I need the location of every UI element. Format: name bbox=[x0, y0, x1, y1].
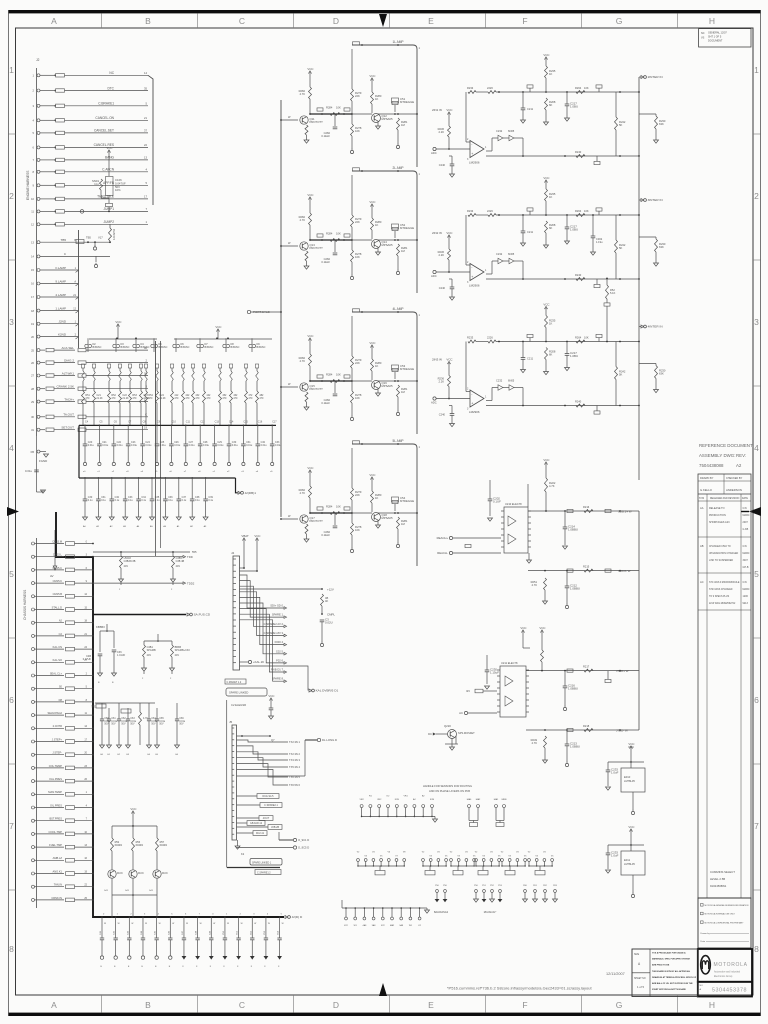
junction bbox=[405, 816, 407, 818]
resistor R9 bbox=[145, 391, 148, 403]
svg-text:ACA SEL: ACA SEL bbox=[61, 346, 74, 350]
svg-text:0.01u: 0.01u bbox=[261, 444, 268, 447]
junction bbox=[321, 380, 323, 382]
junction bbox=[430, 865, 431, 866]
wire top bus bbox=[496, 214, 639, 216]
svg-text:R233: R233 bbox=[467, 86, 474, 90]
ground bbox=[83, 517, 88, 520]
node REACH+ bbox=[449, 536, 452, 539]
svg-text:DRAWN IN AT TERMS A PROCESS. S: DRAWN IN AT TERMS A PROCESS. SPECS OF bbox=[652, 976, 697, 979]
connector J2 right bracket bbox=[148, 75, 153, 205]
power VBAT bbox=[243, 540, 245, 544]
ground terminal bbox=[563, 707, 566, 710]
svg-text:W: W bbox=[159, 923, 161, 925]
connector J2 left spine bbox=[36, 68, 38, 436]
connector J3 pin row S0 bbox=[32, 687, 35, 690]
junction bbox=[92, 820, 94, 822]
wire rail group1 bbox=[89, 338, 157, 340]
junction bbox=[638, 278, 640, 280]
junction bbox=[101, 916, 103, 918]
ground terminal bbox=[169, 956, 172, 959]
connector J3 pin row C2 bbox=[32, 634, 35, 637]
junction bbox=[630, 844, 632, 846]
component box bbox=[596, 334, 602, 337]
svg-text:RELEASED AND REVISION: RELEASED AND REVISION bbox=[710, 497, 740, 500]
svg-text:C10: C10 bbox=[171, 421, 176, 424]
resistor R72 bbox=[615, 367, 618, 380]
resistor R17 bbox=[245, 391, 248, 403]
svg-text:F.LAMP: F.LAMP bbox=[55, 266, 66, 270]
node F000 4 bbox=[284, 643, 287, 646]
resistor R92 bbox=[156, 826, 158, 838]
transistor Q16 bbox=[372, 381, 381, 390]
wire bbox=[240, 666, 309, 691]
connector J3 pin row CM15.M bbox=[32, 542, 35, 545]
svg-text:0.1u: 0.1u bbox=[168, 499, 173, 502]
svg-text:R215: R215 bbox=[583, 564, 590, 568]
svg-text:R284: R284 bbox=[326, 373, 333, 377]
svg-text:ASSEMBLY DWG:: ASSEMBLY DWG: bbox=[699, 453, 735, 458]
filter box bbox=[46, 361, 54, 364]
svg-text:MC2AF/AL*: MC2AF/AL* bbox=[484, 911, 497, 914]
svg-text:1K: 1K bbox=[375, 496, 378, 500]
svg-text:C63: C63 bbox=[130, 718, 135, 720]
svg-text:MRB: MRB bbox=[502, 799, 507, 801]
junction bbox=[564, 510, 566, 512]
capacitor C8 bbox=[450, 163, 455, 165]
svg-text:CM15.C: CM15.C bbox=[52, 566, 62, 570]
svg-text:G.KELLO: G.KELLO bbox=[700, 488, 713, 492]
connector J2 pin row CRANK 2.5K bbox=[37, 387, 40, 390]
svg-text:ENGINE HARNESS: ENGINE HARNESS bbox=[26, 170, 30, 200]
svg-text:U210 ELEC78: U210 ELEC78 bbox=[505, 502, 522, 506]
power VCC bbox=[448, 237, 450, 241]
svg-text:SPGMB+C33: SPGMB+C33 bbox=[175, 649, 191, 652]
svg-text:SDI+ SD 0: SDI+ SD 0 bbox=[270, 604, 283, 608]
junction bbox=[54, 198, 56, 200]
svg-text:R264: R264 bbox=[575, 86, 582, 90]
ground terminal bbox=[141, 956, 144, 959]
junction bbox=[115, 916, 117, 918]
svg-text:APP.FB: APP.FB bbox=[103, 181, 114, 185]
svg-text:R284: R284 bbox=[326, 232, 333, 236]
ground bbox=[119, 579, 124, 582]
svg-text:C62: C62 bbox=[121, 718, 126, 720]
svg-text:TX3.3N 3: TX3.3N 3 bbox=[289, 758, 301, 762]
filter box bbox=[66, 872, 75, 876]
svg-text:CRNK.IN: CRNK.IN bbox=[51, 896, 62, 900]
ground bbox=[435, 899, 440, 902]
resistor 12CAP52 leads bbox=[109, 224, 111, 228]
capacitor C206 bbox=[170, 425, 172, 444]
resistor R46 bbox=[397, 517, 400, 529]
ground bbox=[136, 517, 141, 520]
svg-text:0.01u: 0.01u bbox=[111, 721, 117, 723]
svg-text:1: 1 bbox=[9, 65, 14, 75]
svg-text:ANDERSON: ANDERSON bbox=[726, 488, 742, 492]
ground terminal bbox=[271, 462, 274, 465]
junction bbox=[84, 477, 86, 479]
connector J2 pin row DTC bbox=[37, 89, 40, 92]
signal box bbox=[478, 871, 488, 875]
ground terminal bbox=[184, 462, 187, 465]
svg-text:50V: 50V bbox=[104, 724, 109, 726]
wire bbox=[243, 543, 245, 568]
svg-text:1.01UF: 1.01UF bbox=[117, 654, 126, 657]
junction bbox=[498, 91, 500, 93]
junction bbox=[361, 443, 363, 445]
reference document text bbox=[699, 443, 753, 468]
junction bbox=[396, 865, 397, 866]
wire fanout TX6.5N 6 bbox=[237, 770, 289, 786]
wire stub to bus bbox=[156, 895, 158, 917]
ground terminal bbox=[396, 544, 399, 547]
ground bbox=[236, 956, 241, 960]
svg-text:MUN: MUN bbox=[117, 872, 123, 875]
connector J2 pin row CANCEL.ON bbox=[37, 119, 40, 122]
svg-text:HANDLE FOR SENSORS FOR ROUTING: HANDLE FOR SENSORS FOR ROUTING bbox=[423, 784, 472, 788]
connector J3 pin row J.STEP+ bbox=[32, 740, 35, 743]
svg-text:C17: C17 bbox=[272, 421, 277, 424]
svg-text:H: H bbox=[709, 1000, 715, 1010]
svg-text:AC: AC bbox=[700, 580, 704, 584]
resistor RN16 bbox=[255, 364, 258, 368]
transistor Q12 bbox=[372, 114, 381, 123]
junction bbox=[448, 271, 450, 273]
component box C.MANET bbox=[225, 679, 246, 684]
checkbox bbox=[701, 921, 704, 924]
connector J2 pin row JUMP1 bbox=[37, 210, 40, 213]
svg-text:R240: R240 bbox=[575, 399, 582, 403]
filter box bbox=[66, 661, 75, 665]
junction bbox=[394, 380, 396, 382]
svg-text:R217: R217 bbox=[583, 664, 590, 668]
resistor R30 bbox=[351, 250, 354, 262]
node KAL DVBR/5 D1 bbox=[309, 689, 312, 692]
component box bbox=[594, 161, 600, 164]
op-amp stage 2INTER IN bbox=[431, 53, 666, 177]
capacitor C61 bbox=[108, 708, 110, 719]
filter box bbox=[56, 223, 65, 226]
testpoint row 2 groups bbox=[357, 852, 555, 875]
svg-text:63K: 63K bbox=[659, 372, 664, 376]
signal box 4OUT bbox=[259, 816, 273, 821]
filter box bbox=[66, 595, 75, 599]
svg-text:6N05: 6N05 bbox=[508, 252, 515, 256]
svg-text:4K: 4K bbox=[325, 599, 328, 603]
svg-text:7: 7 bbox=[754, 821, 759, 831]
svg-text:COL.TEMP: COL.TEMP bbox=[49, 764, 63, 768]
junction bbox=[138, 477, 140, 479]
junction bbox=[99, 425, 101, 427]
ground bbox=[277, 956, 282, 960]
capacitor C19 bbox=[485, 669, 490, 671]
capacitor C66 bbox=[176, 703, 178, 719]
connector J2 pin row ALT.WK1 bbox=[37, 374, 40, 377]
junction bbox=[448, 398, 450, 400]
stage tag box bbox=[353, 168, 360, 171]
svg-text:Automotive and Industrial: Automotive and Industrial bbox=[714, 971, 740, 974]
svg-text:G.KB: G.KB bbox=[743, 528, 749, 531]
testpoint K4 bbox=[382, 908, 384, 917]
component box bbox=[121, 709, 131, 713]
svg-text:J2ND: J2ND bbox=[58, 320, 66, 324]
resistor RN10 bbox=[181, 364, 184, 368]
svg-text:OIL.PRES: OIL.PRES bbox=[50, 803, 62, 807]
arrow down bbox=[53, 566, 57, 570]
connector J2 pin row NC bbox=[37, 74, 40, 77]
junction bbox=[279, 916, 281, 918]
svg-text:REACH+: REACH+ bbox=[437, 536, 449, 540]
resistor RN13 bbox=[218, 364, 221, 368]
grid tick mark bbox=[677, 13, 679, 28]
wire fanout C.SPARE1.8V 3 bbox=[240, 592, 285, 636]
svg-text:TX2.3N 1: TX2.3N 1 bbox=[289, 740, 301, 744]
signal box bbox=[496, 823, 504, 827]
svg-text:2226: 2226 bbox=[487, 335, 493, 339]
resistor RN7 bbox=[144, 364, 147, 368]
svg-text:0.07UF: 0.07UF bbox=[83, 658, 92, 661]
connector J3 pin row STALL.D bbox=[32, 608, 35, 611]
svg-text:C240: C240 bbox=[439, 413, 446, 417]
op-amp U3 bbox=[470, 390, 484, 407]
svg-text:MUN: MUN bbox=[162, 872, 168, 875]
svg-text:PRODUCTION: PRODUCTION bbox=[709, 514, 726, 517]
wire bus M1b bbox=[528, 570, 639, 572]
junction bbox=[361, 44, 363, 46]
svg-text:TB5: TB5 bbox=[60, 238, 66, 242]
capacitor C16 bbox=[488, 498, 493, 500]
connector J2 pin row C bbox=[37, 255, 40, 258]
svg-text:W: W bbox=[200, 923, 202, 925]
junction bbox=[501, 865, 502, 866]
svg-text:4.7K: 4.7K bbox=[143, 717, 148, 720]
svg-text:O_9C5 D: O_9C5 D bbox=[298, 846, 309, 850]
junction bbox=[483, 865, 484, 866]
diode pair feedback bbox=[486, 273, 492, 275]
ground bbox=[376, 525, 381, 528]
svg-text:5.1K: 5.1K bbox=[610, 291, 616, 295]
power VCC bbox=[270, 700, 272, 704]
connector J3 pin row KAL.CN bbox=[32, 648, 35, 651]
svg-text:W: W bbox=[104, 923, 106, 925]
junction bbox=[321, 512, 323, 514]
junction bbox=[309, 113, 311, 115]
junction bbox=[638, 155, 640, 157]
svg-text:9102456BN1: 9102456BN1 bbox=[710, 884, 727, 888]
junction bbox=[345, 907, 347, 909]
ground bbox=[44, 454, 49, 457]
wire bbox=[108, 155, 110, 176]
svg-text:C.SPARE1.2: C.SPARE1.2 bbox=[257, 871, 271, 874]
connector J2 pin row TACH+ bbox=[37, 400, 40, 403]
wire left rail bbox=[280, 100, 282, 517]
junction bbox=[638, 405, 640, 407]
svg-text:NC: NC bbox=[109, 71, 114, 75]
svg-text:R233: R233 bbox=[467, 209, 474, 213]
junction bbox=[84, 425, 86, 427]
junction bbox=[321, 239, 323, 241]
diode pair feedback bbox=[486, 400, 492, 402]
svg-text:3407: 3407 bbox=[743, 559, 749, 562]
component box bbox=[344, 507, 350, 510]
junction bbox=[397, 170, 399, 172]
junction bbox=[566, 729, 568, 731]
svg-text:B4WSC: B4WSC bbox=[121, 346, 130, 349]
svg-text:IT IS A PROCELAIM. FOR USAGE A: IT IS A PROCELAIM. FOR USAGE A bbox=[652, 952, 686, 955]
ground terminal bbox=[93, 247, 96, 250]
capacitor C65 bbox=[156, 708, 158, 719]
junction bbox=[132, 894, 134, 896]
component box bbox=[317, 375, 323, 378]
component box bbox=[392, 227, 398, 230]
junction bbox=[351, 113, 353, 115]
svg-text:1.0BU: 1.0BU bbox=[570, 228, 578, 232]
svg-text:4.LAMP: 4.LAMP bbox=[55, 293, 66, 297]
resistor R58 bbox=[488, 214, 496, 217]
junction bbox=[280, 119, 282, 121]
component box bbox=[596, 85, 602, 88]
svg-text:CHECKED BY: CHECKED BY bbox=[726, 477, 743, 480]
resistor R71 bbox=[576, 404, 585, 407]
resistor R74 bbox=[606, 285, 609, 299]
svg-text:C16: C16 bbox=[258, 421, 263, 424]
svg-text:GENERAL 12/07: GENERAL 12/07 bbox=[708, 32, 727, 35]
filter box bbox=[56, 170, 65, 173]
svg-text:B4WSC: B4WSC bbox=[159, 346, 168, 349]
testpoint row 1 left group bbox=[359, 796, 437, 823]
svg-text:2007: 2007 bbox=[743, 521, 749, 524]
filter box bbox=[66, 542, 75, 546]
wire bbox=[36, 466, 38, 492]
junction bbox=[606, 341, 608, 343]
filter box bbox=[56, 158, 65, 161]
junction bbox=[92, 899, 94, 901]
svg-text:Drawn by: Drawn by bbox=[701, 932, 711, 935]
resistor R35 bbox=[330, 380, 340, 383]
svg-text:C3B 4B: C3B 4B bbox=[176, 560, 185, 563]
ground bbox=[269, 716, 274, 719]
junction bbox=[397, 239, 399, 241]
junction bbox=[564, 405, 566, 407]
ground bbox=[565, 118, 570, 121]
resistor R70 bbox=[576, 340, 585, 343]
resistor R26 bbox=[309, 213, 312, 225]
wire group bus bbox=[476, 865, 499, 867]
junction bbox=[108, 211, 110, 213]
svg-text:C211: C211 bbox=[527, 107, 534, 111]
ground terminal bbox=[213, 462, 216, 465]
junction bbox=[238, 916, 240, 918]
grid tick mark bbox=[197, 13, 199, 28]
resistor R15 bbox=[219, 391, 222, 403]
connector J3 pin row OIL.PRES bbox=[32, 806, 35, 809]
wire bbox=[101, 197, 109, 199]
filter box bbox=[56, 104, 65, 107]
junction bbox=[106, 630, 108, 632]
resistor RN5 bbox=[128, 364, 131, 368]
svg-text:0.01u: 0.01u bbox=[179, 721, 185, 723]
svg-text:R218: R218 bbox=[583, 724, 590, 728]
svg-text:SPARE LINKED 1: SPARE LINKED 1 bbox=[252, 861, 272, 864]
svg-text:2226: 2226 bbox=[487, 209, 493, 213]
svg-text:2INTER IN: 2INTER IN bbox=[648, 75, 663, 79]
svg-text:0.1ELF: 0.1ELF bbox=[321, 134, 330, 138]
svg-text:I2V: I2V bbox=[466, 689, 470, 693]
svg-text:ADC: ADC bbox=[431, 151, 437, 155]
border top black bar bbox=[8, 10, 761, 13]
junction bbox=[545, 510, 547, 512]
svg-text:AV: AV bbox=[50, 574, 54, 578]
svg-text:LM2906: LM2906 bbox=[469, 410, 480, 414]
svg-text:5: 5 bbox=[754, 569, 759, 579]
wire row3 bus bbox=[342, 907, 425, 909]
svg-text:SEAL.CL+: SEAL.CL+ bbox=[50, 671, 63, 675]
resistor R6 bbox=[119, 391, 122, 403]
junction bbox=[165, 477, 167, 479]
svg-text:C14: C14 bbox=[229, 421, 234, 424]
filter box bbox=[78, 400, 86, 403]
junction bbox=[241, 735, 243, 737]
svg-text:0.01u: 0.01u bbox=[145, 444, 152, 447]
ground bbox=[450, 747, 455, 750]
svg-text:VCC: VCC bbox=[215, 325, 221, 329]
connector J2 pin row THROTTLE bbox=[37, 197, 40, 200]
signal box DUG.SA 5 bbox=[257, 794, 279, 799]
ground bbox=[142, 668, 147, 671]
junction bbox=[397, 512, 399, 514]
svg-text:3INTER IN: 3INTER IN bbox=[648, 198, 663, 202]
transistor Q101 bbox=[87, 338, 89, 344]
svg-text:4OUT: 4OUT bbox=[263, 817, 270, 820]
amplifier stage 1L AMP bbox=[280, 40, 420, 167]
connector J3 pin row SEAL.CL+ bbox=[32, 674, 35, 677]
junction bbox=[92, 569, 94, 571]
svg-text:U211 ELEC78: U211 ELEC78 bbox=[501, 661, 518, 665]
svg-text:1.LAMP: 1.LAMP bbox=[55, 306, 66, 310]
ground bbox=[553, 899, 558, 902]
svg-text:1.0BU: 1.0BU bbox=[570, 354, 578, 358]
node FA/B D1 7 bbox=[284, 671, 287, 674]
comparator block lower bbox=[428, 626, 639, 767]
ground bbox=[485, 686, 490, 689]
filter box bbox=[66, 621, 75, 625]
power VCC bbox=[117, 326, 119, 330]
svg-text:2.2K: 2.2K bbox=[438, 253, 444, 257]
svg-text:1K: 1K bbox=[375, 97, 378, 101]
wire stub to bus bbox=[132, 895, 134, 917]
svg-text:ADC: ADC bbox=[431, 401, 437, 405]
svg-text:10K: 10K bbox=[584, 335, 589, 339]
resistor RN1 bbox=[81, 364, 84, 368]
signal box bbox=[470, 823, 478, 827]
svg-text:604R2: 604R2 bbox=[160, 844, 168, 847]
filter box bbox=[66, 687, 75, 691]
svg-text:SELM.PAG2: SELM.PAG2 bbox=[47, 711, 62, 715]
junction bbox=[92, 595, 94, 597]
svg-text:SHEET NO: SHEET NO bbox=[634, 978, 646, 980]
filter box bbox=[66, 898, 75, 902]
ground bbox=[175, 745, 180, 748]
power VCC bbox=[630, 748, 632, 752]
alignment arrow right middle bbox=[749, 507, 761, 516]
svg-text:W: W bbox=[131, 923, 133, 925]
svg-text:1.0uF: 1.0uF bbox=[611, 854, 619, 858]
capacitor C207 bbox=[185, 425, 187, 444]
svg-text:CMPL: CMPL bbox=[327, 613, 335, 617]
junction bbox=[438, 865, 439, 866]
resistor R87 bbox=[139, 712, 142, 725]
